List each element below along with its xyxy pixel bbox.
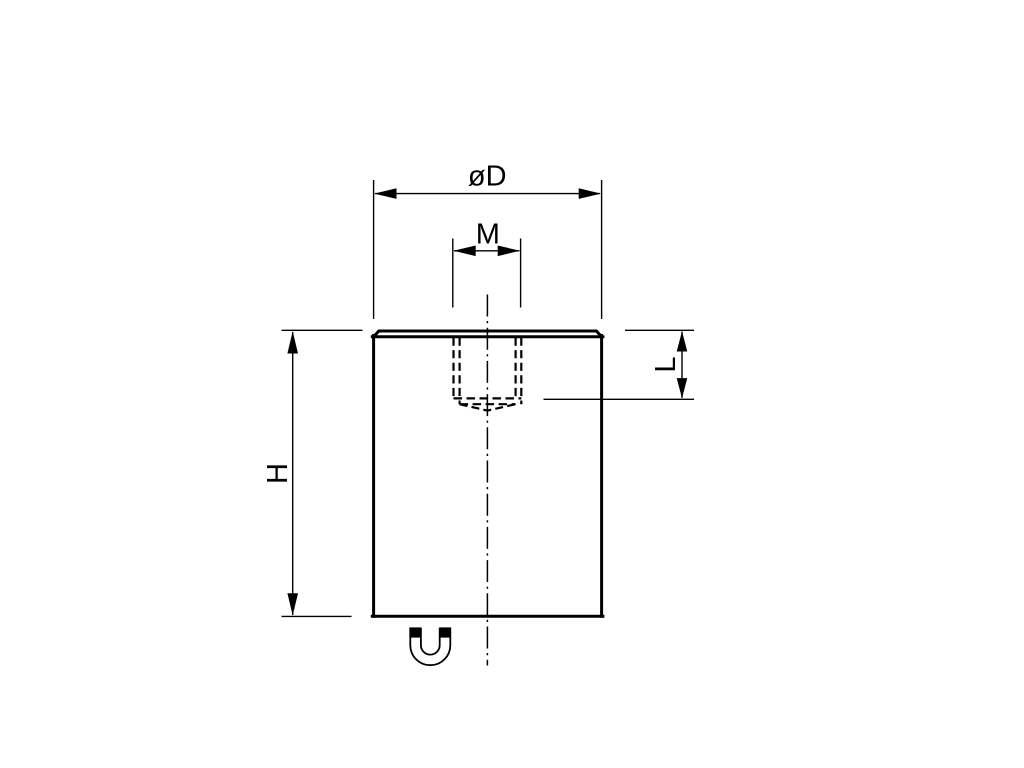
drill bottom line	[460, 403, 516, 405]
svg-text:M: M	[476, 219, 500, 251]
thread hole hidden lines (dashed)	[454, 338, 522, 411]
svg-text:L: L	[650, 357, 682, 373]
dimension H	[262, 330, 363, 616]
magnet symbol (horseshoe)	[409, 627, 451, 665]
dimension M	[453, 219, 521, 308]
leader line thread depth	[544, 398, 695, 400]
centerline (vertical axis, dash-dot)	[486, 295, 488, 666]
dimension L	[544, 330, 695, 399]
svg-text:øD: øD	[468, 161, 507, 193]
svg-text:H: H	[262, 463, 294, 484]
body outline (cylinder side view)	[372, 331, 603, 616]
dimension oD	[374, 161, 602, 319]
drill point cone	[460, 404, 516, 410]
thread bottom line	[454, 397, 522, 399]
